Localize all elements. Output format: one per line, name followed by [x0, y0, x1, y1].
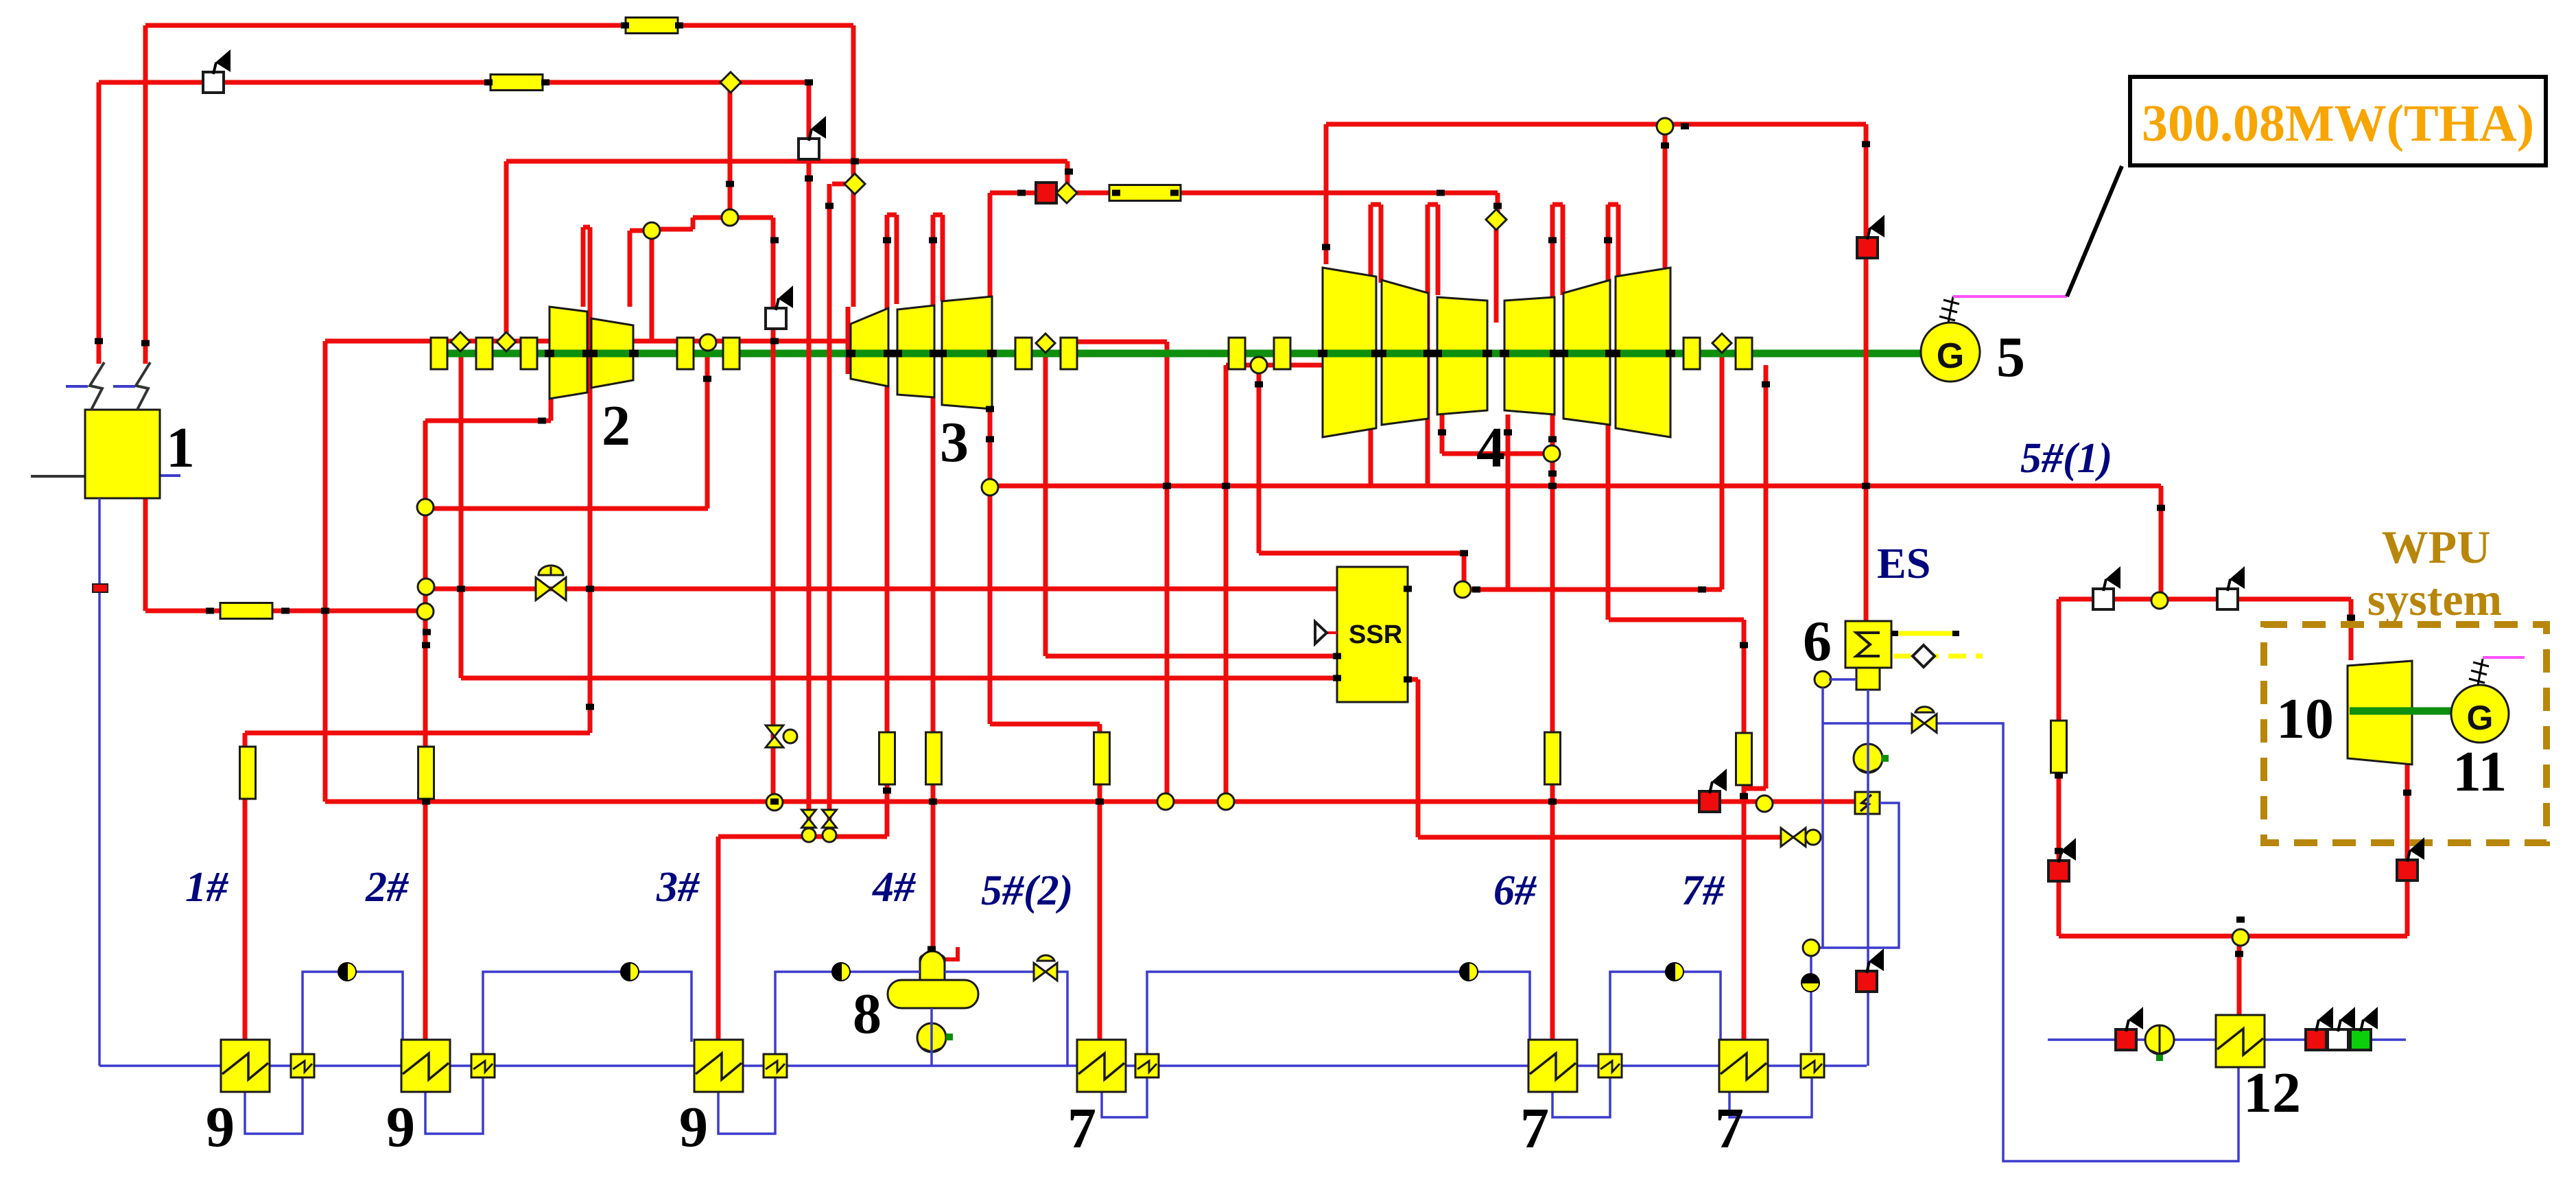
wire 5#2 jog — [990, 722, 1100, 727]
capsule 2# — [418, 747, 434, 799]
shaft node circle post-T2 — [700, 334, 716, 351]
drain cooler 6 — [1801, 1054, 1824, 1077]
blue deaerator outlet valve line — [945, 972, 1067, 1066]
blue U drain 3 — [718, 1077, 775, 1134]
capsule on line B — [491, 75, 543, 91]
hourglass valves 3# — [802, 810, 816, 819]
node T3 exhaust 1443 — [982, 479, 998, 495]
blue ES aux valve — [1912, 714, 1924, 733]
capsule 4# — [926, 732, 942, 784]
wire 7# feed y903 — [1609, 618, 1744, 622]
wire circle950 to node1064 — [659, 227, 693, 232]
WPU capsule — [2051, 721, 2067, 773]
wire extraction header E y1168 — [325, 800, 1855, 804]
svg-text:11: 11 — [2453, 740, 2507, 804]
turbine 10 WPU — [2348, 661, 2412, 765]
drain cooler 2 — [471, 1054, 495, 1077]
red valve on ES return — [1856, 971, 1877, 992]
svg-text:2: 2 — [602, 394, 630, 458]
blue U drain 2 — [425, 1077, 483, 1134]
blue loop 2 — [483, 972, 692, 1054]
diamond node on line B — [720, 72, 741, 93]
turbine 2 HP section b — [591, 318, 633, 388]
deaerator 8 dome — [920, 955, 945, 983]
wire line A vertical to IP turbine inlet — [851, 25, 856, 307]
blue U drain 6 — [1729, 1077, 1812, 1117]
wire T4c bottom drop — [1440, 415, 1445, 454]
wire SSR feed y806 — [1259, 551, 1464, 556]
label box 300.08MW — [2130, 77, 2546, 165]
wire x1031 drop from shaft diamond — [705, 350, 710, 509]
heater 7 no6 — [1719, 1040, 1768, 1092]
svg-text:3#: 3# — [656, 864, 700, 911]
blue ES aux line y1054 — [1823, 723, 2238, 1161]
wire line y497 drop x474 to extraction header — [323, 341, 328, 802]
wire reheat diamond stub x1209 — [832, 182, 848, 187]
wire 3# header y1219 — [718, 835, 887, 839]
generator 5 earthing — [1939, 296, 1959, 323]
blue U drain 4 — [1102, 1077, 1147, 1117]
wire x1835 drop to SSR feed — [1257, 365, 1262, 553]
wire T4 loop a — [1369, 205, 1373, 486]
wire cold-reheat shaft-level line y497 — [325, 339, 849, 344]
SSR box — [1337, 567, 1408, 702]
wire gland header y988 to SSR pin1 — [461, 676, 1337, 681]
capsule on boiler line — [220, 603, 272, 619]
svg-text:9: 9 — [206, 1095, 235, 1159]
boiler inlet break symbols — [90, 362, 104, 410]
half valves on blue loops — [338, 963, 356, 981]
turbine 3 IP section b — [897, 305, 934, 397]
capsule 6# — [1545, 732, 1561, 784]
wire node2427 drop to T4f — [1663, 135, 1668, 268]
wire T4 loop c — [1550, 205, 1555, 1042]
capsule 5#2 — [1094, 732, 1110, 784]
svg-text:3: 3 — [940, 410, 969, 474]
svg-text:1#: 1# — [185, 864, 229, 911]
turbine 4 LP section c — [1437, 297, 1487, 415]
WPU red valve right — [2397, 860, 2418, 880]
blue U drain 1 — [245, 1077, 303, 1134]
turbine 4 LP section a — [1323, 268, 1376, 437]
wire turbine10 exhaust — [2405, 765, 2410, 936]
WPU node bottom — [2232, 929, 2249, 946]
heat exchanger 6 ES condenser — [1845, 621, 1891, 668]
wire node1064 right to valve drop x1129 — [737, 215, 773, 220]
heater 9 no3 — [694, 1040, 743, 1092]
wire reheat drop to LP center — [1496, 193, 1500, 220]
wire deaerator vent hook — [945, 947, 958, 959]
svg-text:system: system — [2367, 573, 2502, 625]
wire 2# extraction from T2a bottom — [549, 399, 554, 421]
callout diagonal — [2067, 166, 2122, 296]
shaft boundary ticks — [545, 350, 554, 358]
svg-text:G: G — [1937, 336, 1964, 376]
bearings — [431, 338, 447, 369]
wire T4 loop b — [1426, 205, 1430, 486]
white diamond on signal line — [1913, 645, 1935, 667]
wire circle950 drop to y497 — [650, 238, 654, 341]
svg-text:4: 4 — [1476, 416, 1505, 480]
svg-text:8: 8 — [853, 982, 882, 1046]
shaft node circle pre-LP — [1251, 357, 1267, 373]
wire T4d bottom drop — [1506, 415, 1511, 590]
svg-text:7: 7 — [1067, 1097, 1096, 1160]
wire shaft gland drop x2510 to SSR line — [1720, 351, 1725, 590]
capsule 7# — [1736, 733, 1752, 785]
wire SSR pin5 drop — [1408, 677, 1418, 682]
shaft main — [439, 350, 1920, 358]
svg-text:5#(2): 5#(2) — [981, 867, 1073, 914]
red valve on header E — [1699, 791, 1720, 812]
wire WPU top line — [2059, 597, 2351, 602]
heater 9 no1 — [221, 1040, 270, 1092]
wire T2b exhaust loop — [628, 231, 633, 307]
blue U drain 5 — [1552, 1077, 1610, 1117]
capsule on reheat line — [1109, 185, 1181, 201]
wire LP exhaust top line y181 — [1326, 122, 1866, 127]
junction ticks — [141, 340, 150, 347]
wire line B vertical down through valve — [807, 82, 812, 821]
WPU dashed box — [2264, 625, 2547, 843]
svg-text:1: 1 — [166, 416, 195, 480]
WPU node top — [2151, 592, 2168, 609]
deaerator feed pump — [917, 1023, 946, 1052]
drain cooler 1 — [291, 1054, 314, 1077]
blue loop 1 — [303, 972, 403, 1054]
heater 7 no4 — [1077, 1040, 1126, 1092]
svg-text:5: 5 — [1996, 325, 2025, 389]
wire T3 exhaust drop x1524 — [1043, 351, 1048, 656]
wire hot reheat line y281 — [990, 191, 1498, 196]
valve bowtie on SSR line end — [1781, 828, 1793, 847]
wire 1# line y1068 — [245, 731, 590, 736]
white valve on line B drop — [799, 139, 819, 159]
svg-text:7: 7 — [1520, 1097, 1549, 1160]
blue main feed line — [99, 1064, 1867, 1067]
wire 4# loop T3b/T3c — [931, 215, 936, 949]
blue deaerator pump drop — [930, 1008, 933, 1066]
svg-text:WPU: WPU — [2382, 521, 2491, 573]
svg-text:10: 10 — [2276, 687, 2334, 751]
twin valve on x1129 — [766, 725, 783, 736]
half valve ES drain — [1803, 940, 1819, 956]
white valve x1127 — [766, 308, 786, 329]
wire 4a# loop T3a/T3b — [885, 215, 890, 837]
wire 3# valve stubs — [807, 821, 812, 837]
drain cooler 3 — [764, 1054, 787, 1077]
wire T4 loop d — [1606, 205, 1611, 620]
svg-text:G: G — [2467, 699, 2494, 737]
turbine 4 LP section f — [1616, 268, 1670, 437]
wire x1787 drop to header E — [1224, 365, 1229, 802]
blue loop 4 — [1147, 972, 1530, 1054]
blue feedwater from boiler — [98, 498, 101, 1066]
diamond node x1246 — [844, 174, 865, 194]
actuated valve on 858 header — [536, 578, 551, 600]
svg-text:300.08MW(THA): 300.08MW(THA) — [2142, 95, 2534, 152]
svg-text:5#(1): 5#(1) — [2020, 435, 2112, 482]
blue heater drain from ES — [1811, 803, 1899, 1052]
WPU red valve left — [2048, 861, 2069, 881]
red valve on reheat line — [1036, 183, 1056, 203]
SSR pin3 triangle — [1327, 631, 1337, 634]
turbine 2 HP section a — [550, 307, 587, 399]
blue ES condensate return — [1867, 690, 1869, 1066]
svg-text:9: 9 — [386, 1095, 415, 1159]
diamond LP admission — [1486, 209, 1506, 230]
drain cooler 5 — [1598, 1054, 1622, 1077]
generator 5 — [1921, 323, 1980, 382]
node at 6 outlet — [1815, 671, 1831, 688]
wire line B second top line — [99, 80, 809, 85]
wire SSR pin6 line y859 — [1471, 587, 1722, 592]
wire right vertical x2720 to ES — [1864, 124, 1869, 621]
node above T4f — [1657, 118, 1673, 135]
wire header y858 to SSR pin4 — [434, 587, 1337, 592]
wire 1# gland drop x672 — [459, 351, 464, 678]
magenta lead 11 — [2483, 656, 2525, 659]
capsule 1# — [240, 747, 256, 799]
svg-text:6: 6 — [1803, 609, 1832, 673]
wire WPU bottom line — [2059, 934, 2407, 939]
svg-text:6#: 6# — [1493, 867, 1537, 914]
wire WPU to exchanger 12 — [2237, 946, 2242, 1016]
svg-text:ES: ES — [1877, 539, 1930, 587]
circle node 950 — [643, 222, 660, 239]
ES pump — [1854, 744, 1882, 773]
valves on line 12 — [2116, 1029, 2136, 1050]
shaft node diamonds — [451, 332, 470, 351]
diamond on reheat line — [1056, 183, 1077, 203]
turbine 3 IP section c — [942, 296, 992, 409]
nodes on header E — [1157, 793, 1174, 810]
wire T2 extraction loop — [581, 227, 586, 307]
wire shaft end drop x2574 — [1764, 365, 1769, 789]
turbine 4 LP section e — [1563, 280, 1610, 425]
electric heater box — [1855, 792, 1880, 814]
deaerator 8 tank — [888, 980, 978, 1008]
heater 9 no2 — [401, 1040, 450, 1092]
blue loop 5 — [1610, 972, 1721, 1054]
blue node6 drop — [1823, 679, 1856, 948]
capsule on line A — [626, 18, 678, 34]
generator 11 — [2451, 685, 2509, 743]
svg-text:2#: 2# — [365, 864, 410, 911]
wire SSR pin2 feed y956 — [1045, 654, 1337, 659]
exchanger 12 — [2216, 1015, 2265, 1067]
wire LP admission line y532 — [1226, 363, 1323, 368]
wire SSR line y1220 — [1418, 835, 1782, 840]
wire main-steam line A top — [145, 23, 853, 28]
turbine 3 IP section a — [851, 308, 888, 386]
generator 11 earthing — [2469, 659, 2489, 685]
wire crossings over shaft — [771, 338, 776, 369]
circles 2# junction — [417, 499, 434, 515]
drain cooler 4 — [1135, 1054, 1159, 1077]
boiler 1 — [31, 475, 85, 478]
wire 5#(1) drop to WPU — [2159, 486, 2164, 592]
wire header y741 — [425, 506, 708, 511]
WPU white valves — [2093, 589, 2114, 609]
turbine 4 LP section d — [1504, 297, 1555, 415]
red valve on x2720 — [1857, 237, 1878, 258]
wire 5#(1) extraction line y708 — [996, 484, 2161, 489]
capsule 3#a — [879, 732, 895, 784]
svg-text:9: 9 — [679, 1095, 708, 1159]
blue deaerator inlet valve — [1034, 963, 1045, 981]
blue exchanger 12 line — [2048, 1038, 2406, 1041]
yellow signal lines at 6 — [1893, 631, 1957, 636]
wire line C crossover — [506, 159, 1067, 164]
SSR pin6 node — [1454, 581, 1471, 598]
svg-text:12: 12 — [2243, 1061, 2301, 1125]
node T4 center bottom — [1544, 445, 1560, 462]
wire x1443 reheat corner down through T3c — [988, 193, 993, 724]
heater 7 no5 — [1528, 1040, 1577, 1092]
white valve top-left — [203, 72, 224, 93]
wire node1064 up to line B — [728, 82, 733, 210]
svg-text:7#: 7# — [1681, 867, 1725, 914]
svg-text:7: 7 — [1715, 1097, 1744, 1160]
magenta lead 5 — [1953, 295, 2067, 298]
wire boiler outlet bottom — [143, 498, 148, 611]
circle node 1064 — [722, 209, 738, 226]
svg-text:4#: 4# — [872, 864, 917, 911]
svg-text:SSR: SSR — [1349, 620, 1402, 649]
shaft WPU — [2350, 708, 2452, 715]
turbine 4 LP section b — [1382, 280, 1428, 425]
blue loop 3 to deaerator — [775, 972, 920, 1054]
wire T3 shaft-level exhaust y498 — [1076, 340, 1167, 345]
wire line C drop to reheat diamond — [1065, 161, 1070, 185]
